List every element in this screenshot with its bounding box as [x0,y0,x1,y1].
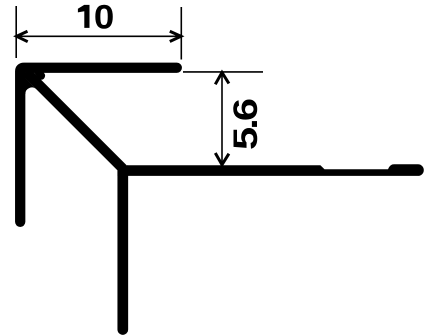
arrowhead up (dim 5.6) [215,72,229,84]
profile long horizontal bar with recess and end bump [118,164,424,176]
extension line left (dim 10) [15,6,17,58]
profile left vertical arm and top flange (L-shape) [20,68,177,222]
profile diagonal strut [26,72,123,169]
fillet arm/diagonal [24,77,36,94]
dimension line 5.6 [221,72,223,165]
fillet flange/diagonal [34,72,45,80]
svg-text:5.6: 5.6 [226,99,265,150]
arrowhead left (dim 10) [17,31,28,41]
label 10 digit 1 [78,5,90,28]
arrowhead right (dim 10) [170,31,181,41]
extension line right (dim 10) [180,7,182,60]
dimension line 10 [17,35,182,37]
svg-text:0: 0 [94,0,114,36]
reference line (dim 5.6 top) [183,71,263,73]
arrowhead down (dim 5.6) [215,153,229,165]
profile long vertical arm [117,172,128,330]
